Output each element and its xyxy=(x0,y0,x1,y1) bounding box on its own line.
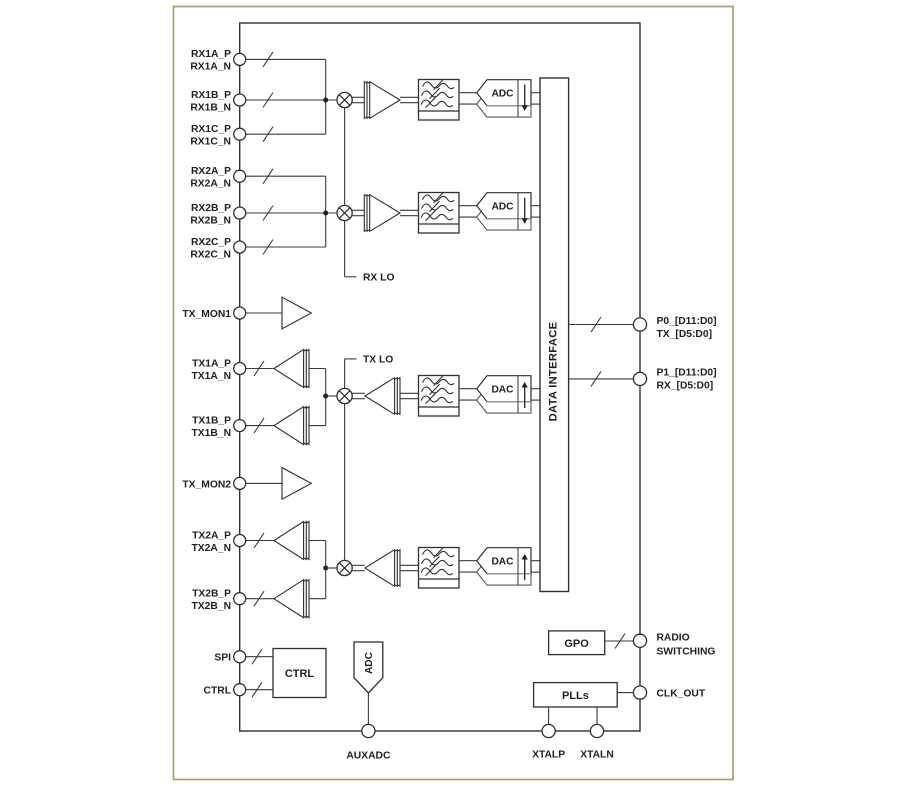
mixer RX2 xyxy=(337,205,352,220)
wire RX2 ADC to data interface xyxy=(531,205,540,207)
DAC TX1 xyxy=(477,376,531,413)
svg-text:RX2B_P: RX2B_P xyxy=(191,203,231,214)
wire TX1B amp to junction xyxy=(309,425,326,427)
wire TX2 filter to DAC xyxy=(459,560,477,562)
wire TX1A pin to amp xyxy=(246,368,274,370)
svg-text:PLLs: PLLs xyxy=(562,690,589,702)
slash SPI xyxy=(252,649,262,664)
svg-text:RADIO: RADIO xyxy=(657,633,690,644)
wire RX1 amp to filter xyxy=(400,96,419,98)
wire RX1B input B xyxy=(246,99,337,101)
slash TX2B xyxy=(254,591,264,606)
svg-text:TX1A_N: TX1A_N xyxy=(192,371,231,382)
pin CLK_OUT xyxy=(633,686,705,700)
pin P0 xyxy=(633,316,716,340)
wire RX1 ADC to data interface xyxy=(531,92,540,94)
wire TX2 junction to mixer xyxy=(326,567,337,569)
svg-text:SPI: SPI xyxy=(214,653,231,664)
wire CTRL to CTRL block xyxy=(246,689,273,691)
pin P1 xyxy=(633,367,716,391)
wire TX LO line xyxy=(344,359,346,389)
slash P0 xyxy=(591,317,601,332)
svg-text:TX2B_N: TX2B_N xyxy=(192,601,231,612)
amplifier TX_MON1 monitor xyxy=(282,297,311,329)
slash RX2C xyxy=(263,240,273,255)
pin RX2A xyxy=(190,166,245,190)
mixer RX1 xyxy=(337,92,352,107)
svg-text:TX_MON2: TX_MON2 xyxy=(182,479,231,490)
wire PLLs to CLK_OUT pin xyxy=(617,692,633,694)
wire TX2A amp to junction xyxy=(309,540,326,542)
junction TX2 xyxy=(323,566,328,571)
wire TX1 junction to mixer xyxy=(326,395,337,397)
pin SPI xyxy=(214,651,245,664)
svg-text:TX2A_N: TX2A_N xyxy=(192,543,231,554)
slash GPO xyxy=(615,634,625,649)
amplifier RX1 VGA xyxy=(364,82,400,119)
svg-text:ADC: ADC xyxy=(491,202,514,213)
svg-text:TX2A_P: TX2A_P xyxy=(192,530,231,541)
mixer TX2 xyxy=(337,560,352,575)
amplifier TX_MON2 monitor xyxy=(282,468,311,500)
amplifier TX2B PA xyxy=(274,580,309,618)
pin AUXADC xyxy=(346,724,391,761)
svg-text:RX1C_P: RX1C_P xyxy=(191,124,231,135)
svg-text:RX2A_P: RX2A_P xyxy=(191,166,231,177)
pin CTRL xyxy=(204,684,246,697)
slash TX1B xyxy=(254,418,264,433)
junction RX2 xyxy=(323,211,328,216)
wire RX2 amp to filter xyxy=(400,209,419,211)
filter RX2 xyxy=(419,192,460,233)
svg-text:RX2B_N: RX2B_N xyxy=(190,215,231,226)
chip outline xyxy=(240,23,640,731)
slash P1 xyxy=(591,371,601,386)
pin XTALP xyxy=(532,724,565,760)
svg-text:DAC: DAC xyxy=(491,385,514,396)
filter TX2 xyxy=(419,547,460,588)
wire RX2B input B xyxy=(246,212,337,214)
filter TX1 xyxy=(419,375,460,416)
svg-text:DATA INTERFACE: DATA INTERFACE xyxy=(548,321,560,421)
block CTRL xyxy=(273,649,326,698)
svg-text:TX1B_P: TX1B_P xyxy=(192,415,231,426)
pin RX1A xyxy=(190,49,245,72)
svg-text:DAC: DAC xyxy=(491,557,514,568)
wire RX2C input C xyxy=(246,246,326,248)
wire RX LO line xyxy=(344,108,346,206)
wire TX1 DAC to data interface xyxy=(531,388,540,390)
wire TX1 collector xyxy=(325,369,327,426)
slash RX2B xyxy=(263,206,273,221)
pin RADIO SWITCHING xyxy=(633,633,715,658)
wire TX_MON1 xyxy=(246,312,282,314)
block GPO xyxy=(549,631,605,655)
svg-text:RX1B_P: RX1B_P xyxy=(191,90,231,101)
pin TX1A xyxy=(192,358,246,382)
wire TX2A pin to amp xyxy=(246,540,274,542)
svg-text:SWITCHING: SWITCHING xyxy=(657,646,716,657)
svg-text:TX_[D5:D0]: TX_[D5:D0] xyxy=(657,329,713,340)
svg-text:CTRL: CTRL xyxy=(204,686,231,697)
pin RX1C xyxy=(190,124,245,148)
svg-text:RX1A_P: RX1A_P xyxy=(191,49,231,60)
svg-text:RX_[D5:D0]: RX_[D5:D0] xyxy=(657,381,714,392)
wire PLLs to XTALN pin xyxy=(596,707,598,724)
svg-text:P0_[D11:D0]: P0_[D11:D0] xyxy=(657,316,717,327)
svg-text:RX1A_N: RX1A_N xyxy=(190,62,231,73)
svg-text:RX2A_N: RX2A_N xyxy=(190,179,231,190)
aux ADC block xyxy=(354,642,383,693)
mixer TX1 xyxy=(337,388,352,403)
block PLLs xyxy=(534,683,618,707)
ADC RX2 xyxy=(477,193,531,230)
junction RX1 xyxy=(323,98,328,103)
svg-text:RX LO: RX LO xyxy=(363,273,394,284)
pin TX_MON1 xyxy=(182,307,245,320)
wire SPI to CTRL block xyxy=(246,656,273,658)
wire RX2 filter to ADC xyxy=(459,205,477,207)
amplifier TX2 driver xyxy=(365,550,400,587)
wire RX1C input C xyxy=(246,133,326,135)
svg-text:TX2B_P: TX2B_P xyxy=(192,589,231,600)
pin TX2B xyxy=(192,589,246,613)
junction TX1 xyxy=(323,394,328,399)
wire TX1 amp to filter xyxy=(400,392,419,394)
pin RX1B xyxy=(190,90,245,114)
wire P0 port xyxy=(569,324,634,326)
ADC RX1 xyxy=(477,80,531,117)
svg-text:RX1B_N: RX1B_N xyxy=(190,102,231,113)
wire TX2 collector xyxy=(325,541,327,599)
DAC TX2 xyxy=(477,548,531,585)
pin TX1B xyxy=(192,415,246,439)
amplifier TX1A PA xyxy=(274,350,309,388)
svg-text:RX2C_P: RX2C_P xyxy=(191,237,231,248)
slash TX2A xyxy=(254,533,264,548)
svg-text:TX LO: TX LO xyxy=(363,355,393,366)
svg-text:RX1C_N: RX1C_N xyxy=(190,137,231,148)
slash RX1A xyxy=(263,52,273,67)
svg-text:CLK_OUT: CLK_OUT xyxy=(657,689,706,700)
svg-text:AUXADC: AUXADC xyxy=(346,751,391,762)
page border frame xyxy=(174,7,734,780)
wire TX2 amp to filter xyxy=(400,564,419,566)
wire RX1 collector xyxy=(325,59,327,134)
wire TX1 filter to DAC xyxy=(459,388,477,390)
svg-text:TX1A_P: TX1A_P xyxy=(192,358,231,369)
wire GPO to RADIO SWITCHING pin xyxy=(605,640,634,642)
slash CTRL xyxy=(252,682,262,697)
slash RX2A xyxy=(263,169,273,184)
pin TX_MON2 xyxy=(182,477,245,490)
wire P1 port xyxy=(569,378,634,380)
wire TX2 mixer to amp xyxy=(352,564,365,566)
pin RX2B xyxy=(190,203,245,227)
wire TX2B amp to junction xyxy=(309,598,326,600)
slash RX1C xyxy=(263,127,273,142)
filter RX1 xyxy=(419,79,460,120)
amplifier TX2A PA xyxy=(274,522,309,560)
amplifier TX1B PA xyxy=(274,407,309,445)
pin RX2C xyxy=(190,237,245,260)
svg-text:XTALN: XTALN xyxy=(580,750,614,761)
pin TX2A xyxy=(192,530,246,554)
svg-text:P1_[D11:D0]: P1_[D11:D0] xyxy=(657,367,717,378)
wire TX1 mixer to amp xyxy=(352,392,365,394)
svg-text:XTALP: XTALP xyxy=(532,750,565,761)
wire TX_MON2 xyxy=(246,482,282,484)
wire RX2A input A xyxy=(246,175,326,177)
wire RX2 collector xyxy=(325,176,327,247)
wire TX1A amp to junction xyxy=(309,368,326,370)
wire TX1B pin to amp xyxy=(246,425,274,427)
svg-text:ADC: ADC xyxy=(491,89,514,100)
data interface block xyxy=(540,78,569,592)
wire RX1A input A xyxy=(246,58,326,60)
svg-text:RX2C_N: RX2C_N xyxy=(190,249,231,260)
slash TX1A xyxy=(254,361,264,376)
pin XTALN xyxy=(580,724,614,760)
wire PLLs to XTALP pin xyxy=(548,707,550,724)
wire RX1 filter to ADC xyxy=(459,92,477,94)
wire RX1 mixer to amp xyxy=(352,96,364,98)
wire TX2B pin to amp xyxy=(246,598,274,600)
svg-text:ADC: ADC xyxy=(364,651,375,674)
svg-text:TX_MON1: TX_MON1 xyxy=(182,309,231,320)
svg-text:TX1B_N: TX1B_N xyxy=(192,428,231,439)
wire TX2 DAC to data interface xyxy=(531,560,540,562)
wire RX2 mixer to amp xyxy=(352,209,364,211)
slash RX1B xyxy=(263,93,273,108)
svg-text:GPO: GPO xyxy=(564,638,589,650)
svg-text:CTRL: CTRL xyxy=(285,668,315,680)
wire aux ADC to AUXADC pin xyxy=(367,693,369,724)
amplifier RX2 VGA xyxy=(364,195,400,232)
amplifier TX1 driver xyxy=(365,378,400,415)
